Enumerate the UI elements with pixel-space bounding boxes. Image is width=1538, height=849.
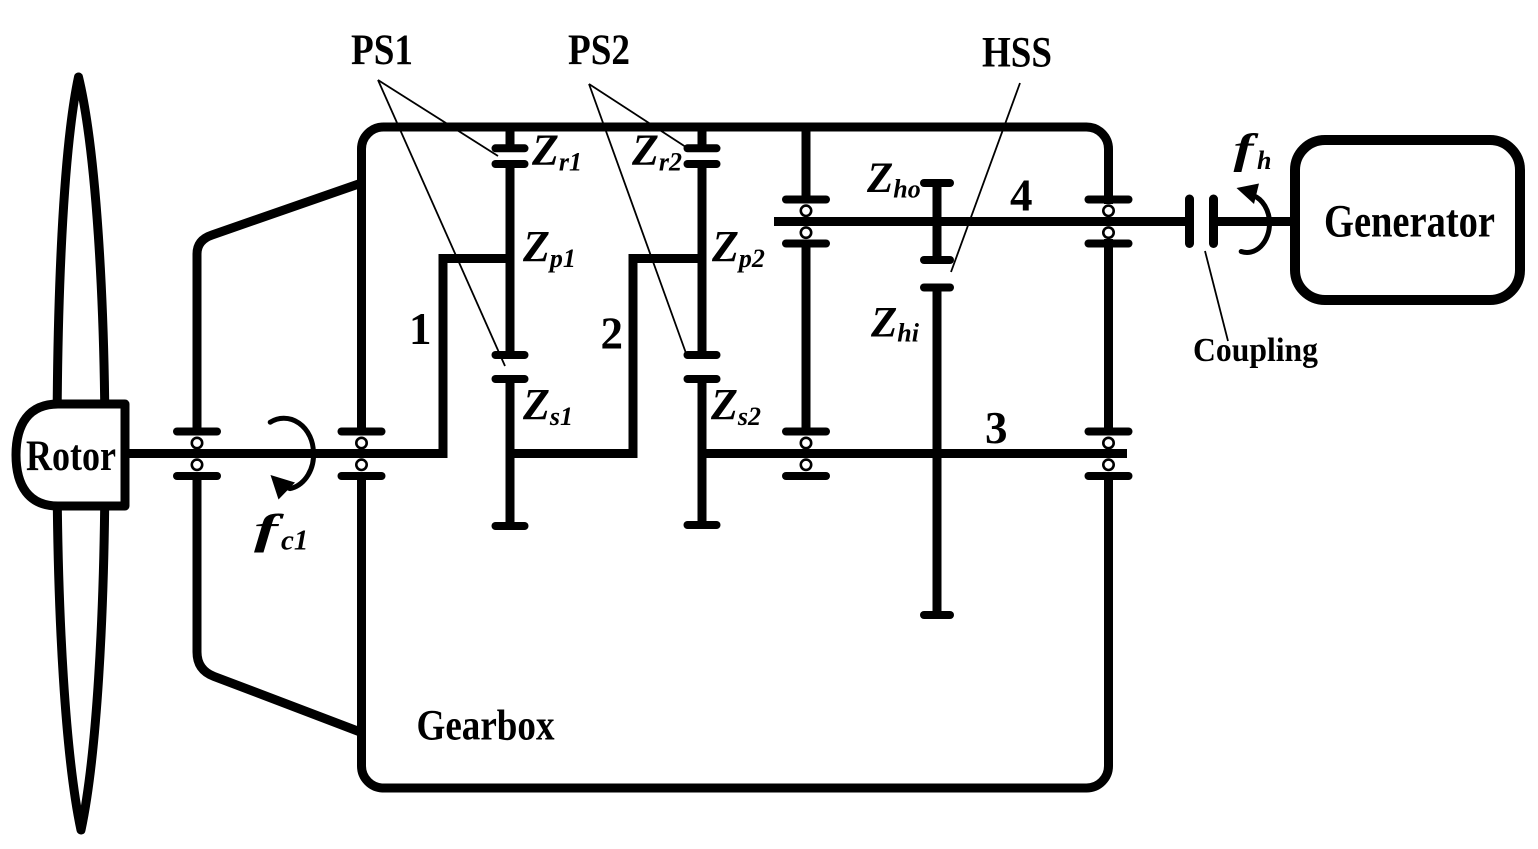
svg-text:Generator: Generator	[1324, 196, 1495, 248]
svg-text:Gearbox: Gearbox	[417, 703, 555, 750]
svg-text:PS1: PS1	[351, 27, 413, 74]
svg-text:Rotor: Rotor	[26, 433, 116, 480]
svg-text:1: 1	[409, 304, 432, 354]
svg-text:2: 2	[601, 309, 624, 359]
svg-text:PS2: PS2	[568, 27, 630, 74]
svg-text:HSS: HSS	[982, 30, 1052, 77]
svg-text:4: 4	[1010, 171, 1033, 221]
svg-text:Coupling: Coupling	[1193, 332, 1318, 369]
svg-text:3: 3	[985, 403, 1008, 453]
